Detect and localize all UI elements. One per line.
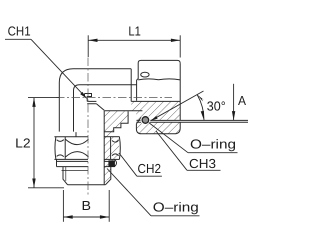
washer top line left — [57, 160, 89, 162]
hatch hex wall section — [104, 137, 119, 160]
L1 ext right — [179, 35, 181, 57]
port face upper line — [137, 119, 249, 121]
thread crest left — [63, 167, 68, 185]
washer right edge — [114, 159, 116, 166]
L1 arrow left — [88, 39, 97, 42]
svg-text:B: B — [82, 198, 92, 213]
hatch port below face — [136, 122, 180, 134]
washer bottom right — [104, 166, 115, 168]
thread crest right section — [105, 167, 110, 185]
hatch nut sleeve band — [131, 101, 180, 110]
B arrow right — [100, 215, 109, 218]
nut left edge — [137, 63, 139, 101]
hex chamfer arc top — [65, 139, 88, 144]
nut chamfer waist — [138, 79, 180, 80]
svg-text:CH1: CH1 — [8, 23, 31, 38]
B ext right — [108, 190, 110, 222]
svg-text:30°: 30° — [207, 99, 226, 114]
washer bottom left — [57, 166, 89, 168]
hatch thread wall section — [104, 167, 111, 185]
B ext left — [62, 190, 64, 222]
body right edge — [130, 69, 132, 102]
bore bottom line — [104, 110, 142, 112]
svg-text:O–ring: O–ring — [153, 200, 199, 215]
hex section top edge — [104, 136, 119, 138]
washer top line right — [104, 160, 115, 162]
svg-text:O–ring: O–ring — [190, 137, 236, 152]
hex chamfer arc left face top — [57, 140, 64, 142]
CH1 socket detail — [85, 94, 105, 111]
nut chamfer ellipse — [141, 72, 149, 77]
hatch elbow lower wall — [104, 111, 128, 137]
O-ring top leader — [149, 123, 238, 153]
L1 ext left — [87, 35, 89, 57]
nut sleeve inner line — [131, 100, 180, 102]
hatch washer wall section — [104, 159, 115, 166]
washer left edge — [56, 159, 58, 166]
centerline horizontal — [56, 97, 172, 99]
hex chamfer arc bottom — [65, 152, 88, 157]
o-ring seal halo — [140, 115, 150, 125]
hex chamfer arc right bottom — [112, 154, 119, 156]
centerline vertical — [87, 58, 89, 197]
B arrow left — [63, 215, 72, 218]
B dim line — [63, 216, 109, 218]
hex section bottom edge — [104, 158, 119, 160]
hex right bulge — [118, 137, 121, 160]
cone seat edge — [136, 117, 141, 124]
hex chamfer arc left face bottom — [57, 155, 64, 157]
thread root left — [65, 167, 67, 181]
o-ring stud seal square — [108, 160, 115, 167]
O-ring bottom leader — [107, 169, 200, 216]
L1 dim line — [88, 39, 180, 41]
L2 dim line — [33, 98, 35, 188]
L2 ext top — [28, 97, 59, 99]
CH2 leader — [119, 153, 162, 176]
L2 arrow bottom — [32, 179, 35, 188]
elbow wall staircase — [104, 111, 128, 132]
arc arrow bottom — [201, 111, 204, 120]
nut right edge — [179, 63, 181, 120]
leg bottom edge — [68, 184, 106, 186]
cone seat arrow — [151, 116, 158, 121]
hex chamfer arc right top — [112, 140, 119, 142]
port bottom outline — [136, 122, 180, 134]
hex corner line right — [110, 137, 112, 160]
hex left bulge — [54, 137, 57, 160]
angular dim arc — [197, 95, 204, 121]
A dim line — [233, 84, 235, 121]
svg-text:L1: L1 — [128, 23, 141, 38]
port face lower line — [136, 121, 248, 123]
A arrow bottom — [232, 111, 235, 120]
hex corner line left — [64, 137, 66, 160]
bore top line — [74, 85, 137, 132]
svg-text:CH2: CH2 — [138, 161, 162, 176]
svg-text:CH3: CH3 — [189, 156, 216, 171]
svg-text:L2: L2 — [15, 136, 31, 151]
L1 arrow right — [171, 39, 180, 42]
arc arrow top — [197, 95, 204, 102]
L2 ext bottom — [28, 187, 64, 189]
thread runout line — [62, 170, 89, 172]
CH1 leader — [5, 39, 87, 98]
body outer profile — [59, 69, 131, 132]
svg-text:A: A — [238, 93, 246, 108]
hex top edge — [54, 136, 88, 138]
leg neck tick — [75, 132, 77, 137]
leg bore wall — [103, 111, 105, 185]
o-ring seal face — [142, 117, 149, 124]
CH3 leader — [156, 131, 221, 170]
nut top edge — [138, 60, 180, 63]
L2 arrow top — [32, 98, 35, 107]
cone 30 deg line — [151, 91, 204, 121]
hatch seat right of groove — [136, 111, 180, 121]
CH1 arrowhead — [80, 92, 87, 99]
hex bottom edge — [54, 158, 88, 160]
